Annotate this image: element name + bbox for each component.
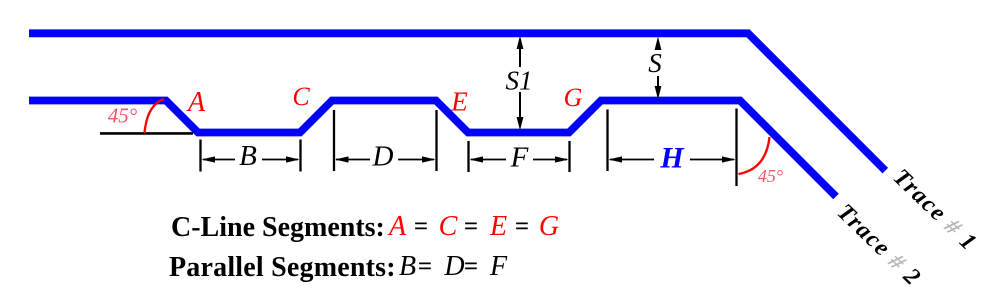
svg-text:E: E — [450, 87, 468, 117]
svg-text:H: H — [659, 142, 685, 175]
angle arc right 45deg — [739, 137, 770, 174]
svg-text:=: = — [515, 213, 529, 240]
dimension F arrows and line — [470, 156, 484, 162]
svg-text:45°: 45° — [758, 166, 783, 186]
dimension H ticks — [606, 110, 608, 172]
svg-text:=: = — [418, 253, 432, 280]
svg-text:B: B — [399, 251, 416, 282]
svg-text:D: D — [443, 251, 464, 282]
dimension B arrows and line — [202, 156, 216, 162]
svg-text:A: A — [387, 211, 407, 242]
spacing S1 arrow — [519, 41, 521, 67]
svg-text:S: S — [648, 48, 662, 78]
dimension F ticks — [467, 141, 469, 172]
svg-text:45°: 45° — [108, 104, 138, 128]
wire trace 2 (serpentine c-line trace) — [29, 101, 836, 197]
svg-text:C: C — [439, 211, 458, 242]
svg-text:Parallel Segments:: Parallel Segments: — [169, 252, 396, 283]
baseline reference line for 45 deg angle — [100, 132, 193, 135]
svg-text:=: = — [414, 213, 428, 240]
dimension B ticks — [199, 140, 201, 172]
svg-text:G: G — [539, 211, 559, 242]
svg-text:A: A — [186, 87, 206, 118]
dimension D arrows and line — [335, 156, 349, 162]
svg-text:C-Line Segments:: C-Line Segments: — [171, 212, 385, 243]
svg-text:D: D — [372, 141, 394, 173]
net label Trace # 2 (rotated) — [832, 199, 926, 291]
svg-text:=: = — [464, 253, 478, 280]
spacing S arrow — [657, 41, 659, 49]
svg-text:G: G — [564, 83, 583, 112]
wire trace 1 (top trace, horizontal then 45-degree diagonal) — [29, 33, 885, 170]
angle arc left 45deg — [145, 99, 165, 133]
svg-text:S1: S1 — [506, 66, 533, 96]
svg-text:=: = — [464, 213, 478, 240]
dimension D ticks — [333, 110, 335, 171]
net label Trace # 1 (rotated) — [888, 164, 982, 256]
dimension H arrows and line — [609, 156, 623, 162]
svg-text:B: B — [239, 140, 257, 172]
svg-text:C: C — [292, 82, 310, 111]
svg-text:F: F — [489, 251, 508, 282]
svg-text:E: E — [489, 211, 507, 242]
svg-text:F: F — [510, 142, 529, 174]
